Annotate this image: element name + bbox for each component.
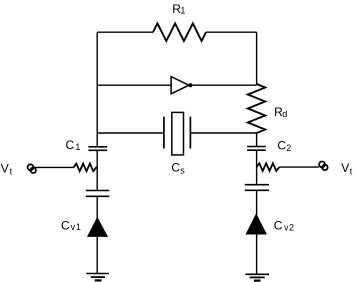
svg-text:v: v: [71, 222, 76, 232]
svg-text:1: 1: [76, 222, 81, 232]
svg-text:C: C: [66, 138, 75, 152]
svg-text:s: s: [180, 165, 185, 175]
svg-text:C: C: [171, 161, 180, 175]
svg-text:V: V: [341, 161, 349, 175]
svg-text:1: 1: [180, 5, 185, 15]
svg-text:C: C: [274, 218, 283, 232]
svg-text:2: 2: [286, 143, 291, 153]
svg-text:d: d: [282, 109, 287, 119]
svg-text:V: V: [1, 161, 9, 175]
svg-text:2: 2: [289, 222, 294, 232]
svg-text:C: C: [61, 218, 70, 232]
svg-text:C: C: [277, 139, 286, 153]
svg-text:1: 1: [75, 142, 80, 152]
svg-text:t: t: [350, 166, 353, 176]
svg-text:t: t: [10, 167, 13, 177]
